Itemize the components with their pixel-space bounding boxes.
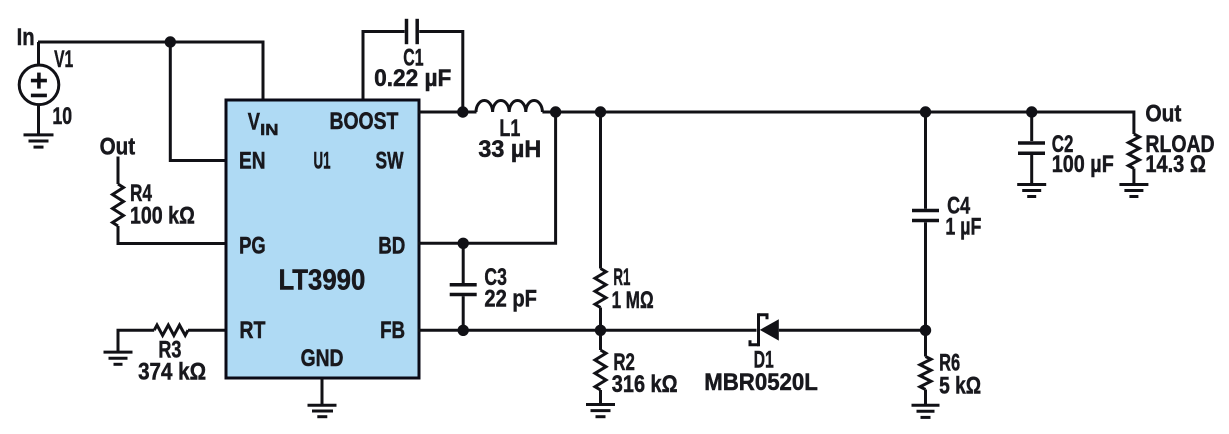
label R6 — [939, 349, 960, 376]
label R2 — [613, 349, 635, 376]
label RLOAD — [1145, 131, 1214, 158]
diode D1 MBR0520L — [750, 313, 779, 346]
wire R1 to FB rail — [599, 308, 602, 331]
svg-text:FB: FB — [380, 317, 405, 344]
wire C3 to FB rail — [462, 296, 465, 330]
svg-text:GND: GND — [301, 345, 344, 372]
ground (R6) — [912, 405, 940, 417]
label 14.3 Ohm — [1145, 151, 1206, 178]
label 33 uH — [478, 136, 541, 163]
pin RT — [239, 317, 265, 344]
svg-text:33 µH: 33 µH — [478, 136, 541, 163]
label U1 — [314, 148, 331, 175]
svg-text:Out: Out — [100, 134, 136, 161]
inductor L1 — [476, 100, 542, 112]
svg-text:100 kΩ: 100 kΩ — [130, 202, 195, 229]
label 10 — [52, 103, 72, 130]
node C3-FB junction — [458, 325, 469, 336]
voltage source V1 — [19, 65, 59, 105]
label L1 — [499, 115, 520, 142]
label 374 kOhm — [138, 359, 206, 386]
resistor R6 — [920, 357, 931, 390]
pin GND — [301, 345, 344, 372]
svg-text:1 MΩ: 1 MΩ — [612, 287, 654, 314]
node R1 top junction — [595, 106, 606, 117]
wire RLOAD to ground — [1132, 169, 1135, 185]
svg-text:0.22 µF: 0.22 µF — [374, 65, 451, 92]
resistor R3 — [154, 325, 188, 335]
node L1 out junction — [550, 106, 561, 117]
svg-text:14.3 Ω: 14.3 Ω — [1145, 151, 1206, 178]
wire C4 top — [924, 112, 927, 209]
label C1 — [403, 45, 423, 72]
wire BOOST right pin — [418, 111, 477, 114]
wire R6 to ground — [924, 390, 927, 406]
pin BD — [378, 232, 405, 259]
resistor R4 — [113, 184, 124, 226]
wire BOOST top pin — [363, 32, 405, 99]
label 100 kOhm — [130, 202, 195, 229]
wire C1 to SW node — [419, 32, 463, 113]
pin SW — [376, 148, 404, 175]
wire C4 bottom — [924, 222, 927, 330]
pin PG — [239, 232, 266, 259]
pin VIN — [248, 108, 279, 139]
label 5 kOhm — [939, 372, 981, 399]
svg-text:IN: IN — [260, 122, 278, 139]
wire RLOAD drop — [1132, 111, 1135, 135]
wire R3 to ground — [118, 330, 154, 352]
pin EN — [239, 148, 266, 175]
svg-text:MBR0520L: MBR0520L — [704, 369, 818, 396]
label Out left — [100, 134, 136, 161]
wire input top rail — [38, 42, 263, 99]
svg-text:V: V — [248, 108, 260, 135]
wire Out to R4 — [117, 157, 120, 185]
capacitor C4 — [912, 211, 939, 221]
wire BD loop — [418, 112, 556, 243]
svg-text:U1: U1 — [314, 148, 331, 175]
svg-text:RT: RT — [239, 317, 265, 344]
resistor R2 — [595, 350, 606, 390]
wire EN branch — [170, 42, 226, 161]
node R1-R2 junction — [595, 325, 606, 336]
node SW junction — [457, 106, 468, 117]
wire R6 top — [924, 330, 927, 356]
ground (V1) — [24, 135, 54, 147]
svg-text:100 µF: 100 µF — [1052, 151, 1114, 178]
node BD junction — [458, 238, 469, 249]
label 1 uF — [945, 214, 981, 241]
label V1 — [54, 46, 73, 73]
wire R1 drop — [599, 112, 602, 269]
wire D1 to R6 node — [779, 329, 926, 332]
svg-text:1 µF: 1 µF — [945, 214, 981, 241]
pin FB — [380, 317, 405, 344]
wire C2 bottom — [1030, 155, 1033, 185]
label C3 — [484, 264, 507, 291]
label MBR0520L — [704, 369, 818, 396]
node R6 top junction — [920, 325, 931, 336]
wire BD node to C3 — [462, 243, 465, 283]
label 0.22 uF — [374, 65, 451, 92]
label C4 — [947, 192, 970, 219]
node C2 junction — [1026, 106, 1037, 117]
wire R2 to ground — [599, 390, 602, 405]
svg-text:PG: PG — [239, 232, 266, 259]
wire L1 to output rail — [542, 111, 1134, 114]
label In — [17, 24, 35, 51]
label R3 — [158, 336, 181, 363]
label 22 pF — [484, 285, 537, 312]
svg-text:LT3990: LT3990 — [279, 264, 366, 296]
label LT3990 — [279, 264, 366, 296]
wire C2 top — [1030, 112, 1033, 141]
label 316 kOhm — [612, 371, 678, 398]
resistor RLOAD — [1128, 134, 1139, 169]
svg-text:5 kΩ: 5 kΩ — [939, 372, 981, 399]
wire FB rail — [418, 329, 757, 332]
label R1 — [613, 264, 630, 291]
svg-text:BOOST: BOOST — [330, 108, 399, 135]
svg-text:EN: EN — [239, 148, 266, 175]
label C2 — [1052, 131, 1074, 158]
node input junction — [165, 36, 176, 47]
svg-text:V1: V1 — [54, 46, 73, 73]
svg-text:In: In — [17, 24, 35, 51]
wire GND pin — [321, 379, 324, 406]
pin BOOST — [330, 108, 399, 135]
label 100 uF — [1052, 151, 1114, 178]
wire RT to R3 — [188, 329, 226, 332]
ground (GND pin) — [308, 405, 337, 416]
label Out right — [1145, 101, 1181, 128]
svg-text:22 pF: 22 pF — [484, 285, 537, 312]
svg-text:BD: BD — [378, 232, 405, 259]
svg-text:10: 10 — [52, 103, 72, 130]
ground (R3) — [104, 352, 133, 364]
svg-text:Out: Out — [1145, 101, 1181, 128]
ground (RLOAD) — [1119, 185, 1148, 197]
wire V1 to ground — [37, 104, 40, 135]
label 1 MOhm — [612, 287, 654, 314]
wire R2 top — [599, 330, 602, 350]
op-amp U1 LT3990 body — [226, 100, 419, 378]
capacitor C3 — [450, 285, 477, 295]
svg-text:374 kΩ: 374 kΩ — [138, 359, 206, 386]
label R4 — [130, 180, 152, 207]
capacitor C2 — [1018, 143, 1045, 153]
svg-text:316 kΩ: 316 kΩ — [612, 371, 678, 398]
wire R4 to PG — [118, 226, 226, 244]
wire V1 to rail — [37, 42, 40, 66]
node C4 top junction — [920, 106, 931, 117]
svg-text:SW: SW — [376, 148, 404, 175]
resistor R1 — [595, 269, 606, 308]
ground (R2) — [586, 405, 615, 417]
label D1 — [754, 346, 774, 373]
ground (C2) — [1017, 185, 1046, 197]
capacitor C1 — [407, 19, 418, 44]
